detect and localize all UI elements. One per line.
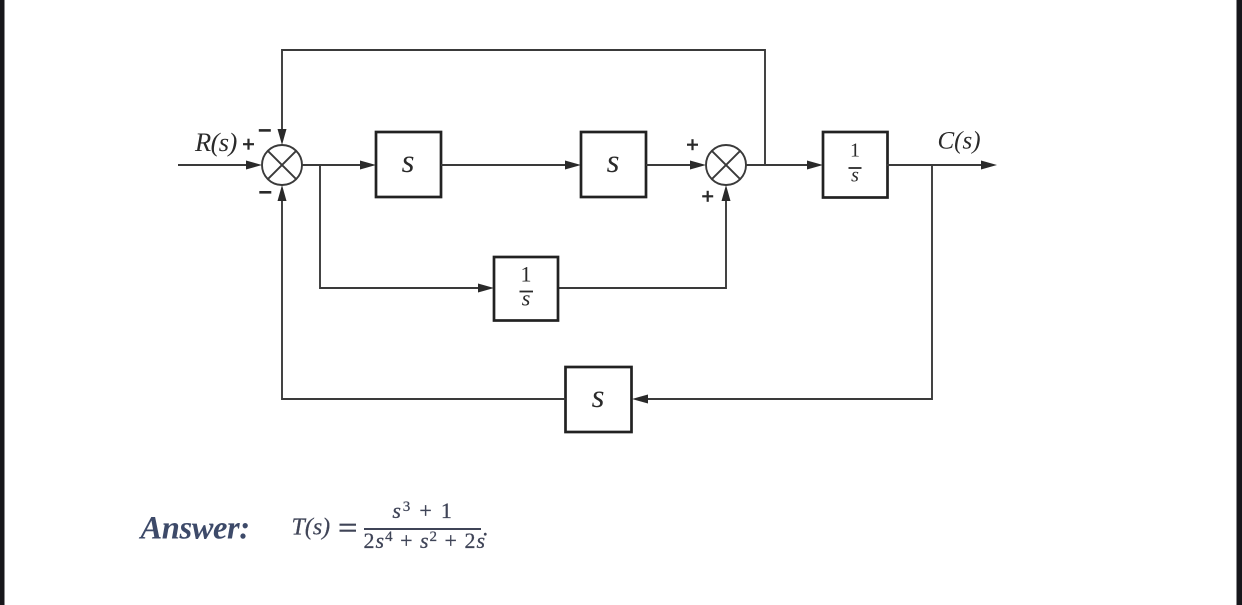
svg-text:s: s xyxy=(402,144,415,180)
block G2 value s xyxy=(581,132,646,197)
svg-text:1: 1 xyxy=(850,140,860,162)
sign - at S1 bottom input xyxy=(259,191,271,194)
output wire C(s) xyxy=(887,161,997,170)
wire S1 to block G1 xyxy=(302,161,376,170)
svg-text:Answer:: Answer: xyxy=(139,511,250,547)
wire S2 to block G3 xyxy=(746,161,823,170)
summing junction S2 xyxy=(706,145,746,185)
answer equation T(s) xyxy=(292,498,489,553)
svg-text:T(s): T(s) xyxy=(292,515,331,541)
svg-text:C(s): C(s) xyxy=(938,128,981,155)
input wire R(s) to S1 xyxy=(178,161,262,170)
svg-text:s: s xyxy=(607,144,620,180)
sign + at S2 left input xyxy=(687,139,698,150)
takeoff wire from output node down and left into block G5 xyxy=(632,165,932,404)
block G3 value 1/s xyxy=(823,132,888,198)
svg-text:1: 1 xyxy=(521,262,532,287)
sign - at S1 top input xyxy=(259,129,271,132)
wire G2 to S2 xyxy=(646,161,706,170)
svg-text:R(s): R(s) xyxy=(194,127,238,157)
svg-text:.: . xyxy=(483,516,489,541)
top feedback wire from node after S2 down into S1 top xyxy=(278,50,766,165)
sign + at S1 left input xyxy=(243,139,254,150)
svg-text:2s4 + s2 + 2s: 2s4 + s2 + 2s xyxy=(364,528,487,553)
summing junction S1 xyxy=(262,145,302,185)
node takeoff wire to middle 1/s branch xyxy=(320,165,494,293)
sign + at S2 bottom input xyxy=(702,191,713,202)
svg-text:s: s xyxy=(522,286,531,311)
wire middle branch G4 output up into S2 bottom xyxy=(558,185,731,288)
svg-text:s: s xyxy=(592,379,605,415)
wire G1 to block G2 xyxy=(441,161,581,170)
right black border bar xyxy=(1237,0,1242,605)
svg-text:s: s xyxy=(851,165,859,187)
block G4 value 1/s xyxy=(494,257,558,321)
svg-text:s3 + 1: s3 + 1 xyxy=(392,498,453,523)
wire G5 output left and up into S1 bottom xyxy=(278,185,566,399)
block G5 value s xyxy=(566,367,632,432)
left black border bar xyxy=(0,0,5,605)
block G1 value s xyxy=(376,132,441,197)
